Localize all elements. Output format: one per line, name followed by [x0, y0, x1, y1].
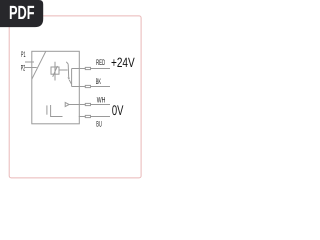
- sensor body box: [32, 51, 80, 124]
- BU connector pin: [85, 115, 90, 117]
- page border (pink frame): [9, 16, 141, 178]
- BK connector pin: [85, 85, 90, 87]
- svg-text:BK: BK: [96, 77, 102, 86]
- svg-text:P2: P2: [21, 64, 26, 73]
- transistor Q1 hook: [66, 62, 68, 64]
- svg-text:PDF: PDF: [9, 3, 35, 24]
- page background: [0, 0, 149, 198]
- RED wire: [79, 68, 110, 70]
- base wire: [59, 69, 68, 71]
- svg-text:P1: P1: [21, 50, 26, 59]
- P1 lead: [25, 61, 34, 63]
- collector-emitter rail: [71, 69, 73, 87]
- capacitor L plate and BU internal wire: [51, 105, 63, 117]
- internal BK rail: [72, 86, 80, 88]
- oscillator adjust slash: [53, 66, 58, 77]
- transistor Q1 bar: [67, 64, 70, 78]
- WH wire: [79, 104, 110, 106]
- svg-text:RED: RED: [96, 58, 105, 67]
- internal RED rail: [72, 68, 80, 70]
- svg-text:BU: BU: [96, 120, 102, 129]
- WH driver triangle: [65, 102, 69, 106]
- P2 lead: [25, 67, 37, 69]
- oscillator square L1: [51, 67, 59, 74]
- diagonal (target plate): [32, 51, 46, 79]
- BU wire: [79, 116, 110, 118]
- capacitor plate: [46, 105, 48, 114]
- svg-text:WH: WH: [97, 95, 106, 104]
- WH internal wire: [69, 104, 79, 106]
- WH connector pin: [85, 103, 90, 105]
- PDF badge: [0, 0, 43, 27]
- BK wire: [79, 86, 110, 88]
- RED connector pin: [85, 67, 90, 69]
- svg-text:+24V: +24V: [111, 55, 135, 70]
- svg-text:0V: 0V: [112, 102, 124, 118]
- oscillator vertical wire: [54, 62, 56, 81]
- transistor Q1 emitter arrow: [67, 78, 70, 80]
- transistor Q1 emitter diagonal: [69, 80, 71, 85]
